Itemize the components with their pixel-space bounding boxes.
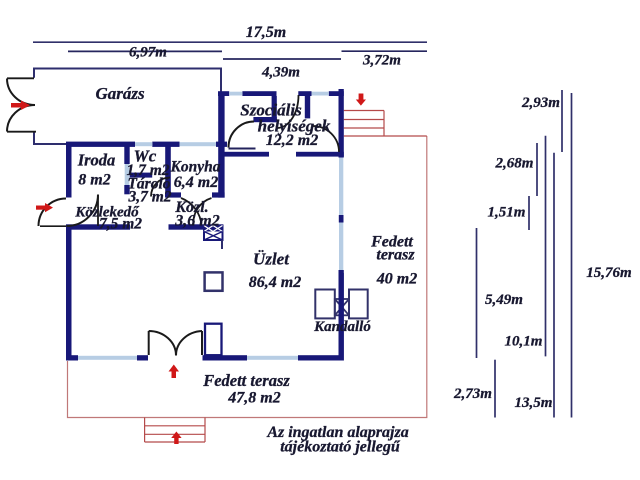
svg-text:Konyha: Konyha [170,159,221,176]
svg-text:2,93m: 2,93m [521,95,560,111]
svg-text:1,51m: 1,51m [488,205,526,221]
fireplace left box [315,290,335,319]
dimension line 1,51m vertical [528,196,530,230]
block interior wall 2 [305,96,310,118]
svg-text:2,73m: 2,73m [453,386,492,402]
wc right wall [165,142,171,193]
red arrow garage entry [11,101,30,111]
door arcs konyha-kozl double [193,198,211,226]
window block top 1 [229,92,242,96]
svg-text:terasz: terasz [376,247,415,264]
svg-text:5,49m: 5,49m [485,292,523,308]
dimension line 10,1m vertical [545,136,547,357]
svg-text:17,5m: 17,5m [246,24,286,41]
shaft lower line [221,240,223,249]
garage outline [34,69,221,145]
red arrow iroda entry [36,203,53,212]
iroda right wall [124,142,129,194]
red arrow top entrance (down) [356,94,366,106]
window block top 2 [312,92,329,96]
block bottom wall [222,152,344,157]
block top-right door arc [277,95,299,128]
door arc iroda entry [39,199,67,227]
block bottom-right door arc [313,126,339,152]
house right wall [339,89,344,361]
kozlekedo bottom wall [66,224,223,229]
window top wall B [135,142,152,146]
block top wall (szocialis) [218,91,344,96]
window top wall C [180,142,217,146]
svg-text:8 m2: 8 m2 [78,172,110,189]
dimension line 2,93m vertical [561,90,563,152]
dimension line 2,68m vertical [536,143,538,196]
door leaf rect on bottom wall [205,324,222,356]
door arc tarolo-konyha [151,178,170,197]
small square in uzlet [205,272,223,290]
house left wall lower [66,227,72,361]
konyha bottom wall stub [165,192,181,197]
block entry door arc [229,122,256,149]
svg-text:3,72m: 3,72m [362,53,401,69]
svg-text:12,2 m2: 12,2 m2 [266,132,318,149]
svg-text:40 m2: 40 m2 [376,271,417,288]
svg-text:3,7 m2: 3,7 m2 [127,189,171,206]
dimension line 3,72m [342,50,428,52]
dimension line 5,49m vertical [476,228,478,358]
svg-text:Kandalló: Kandalló [313,319,371,335]
svg-text:7,5 m2: 7,5 m2 [99,216,142,233]
garage door jut lines [7,78,36,131]
red terrace outline [68,136,427,418]
shaft box by kozl [204,226,223,241]
svg-text:47,8 m2: 47,8 m2 [227,390,280,407]
svg-text:10,1m: 10,1m [505,334,543,350]
svg-text:13,5m: 13,5m [515,395,553,411]
svg-text:6,4 m2: 6,4 m2 [174,174,218,191]
chimney wall over fireplace [339,273,344,361]
fireplace right box [349,290,368,319]
garage door arcs [7,79,35,132]
svg-text:3,6 m2: 3,6 m2 [174,213,219,230]
house bottom wall [66,355,342,360]
svg-text:Fedett terasz: Fedett terasz [202,371,290,390]
red staircase top (entrance steps) [344,111,427,137]
svg-text:4,39m: 4,39m [261,65,300,81]
block interior L wall [272,96,277,122]
dimension line 6,97m [68,50,222,52]
svg-text:Üzlet: Üzlet [253,250,290,269]
dimension line 15,76m vertical [571,93,573,418]
window bottom wall 2 [247,356,298,360]
house left wall upper (Iroda) [66,142,72,197]
central wall jut [212,192,225,197]
svg-text:86,4 m2: 86,4 m2 [249,274,301,291]
window bottom wall 1 [78,356,137,360]
dimension line 2,73m vertical [494,360,496,418]
svg-text:6,97m: 6,97m [129,45,167,61]
dimension line 4,39m [223,58,341,60]
svg-text:15,76m: 15,76m [586,265,631,281]
dimension line 17,5m [33,41,427,43]
svg-text:tájékoztató jellegű: tájékoztató jellegű [280,439,401,456]
house top wall [66,142,227,147]
red arrow bottom stairs (up) [171,432,181,445]
dimension line 13,5m vertical [553,153,555,418]
window right wall (long) [339,158,343,216]
wc-tarolo divider wall [130,173,153,178]
svg-text:2,68m: 2,68m [495,156,534,172]
door arc iroda-kozlekedo [67,195,99,227]
iroda right wall window [125,164,130,185]
red arrow uzlet front (up) [169,365,180,379]
svg-text:Garázs: Garázs [95,84,145,103]
central vertical wall [218,92,224,198]
red staircase bottom (terrace steps) [145,418,205,443]
svg-text:Iroda: Iroda [77,151,116,170]
fireplace center x-box [335,299,349,315]
uzlet front double door M [149,331,202,356]
